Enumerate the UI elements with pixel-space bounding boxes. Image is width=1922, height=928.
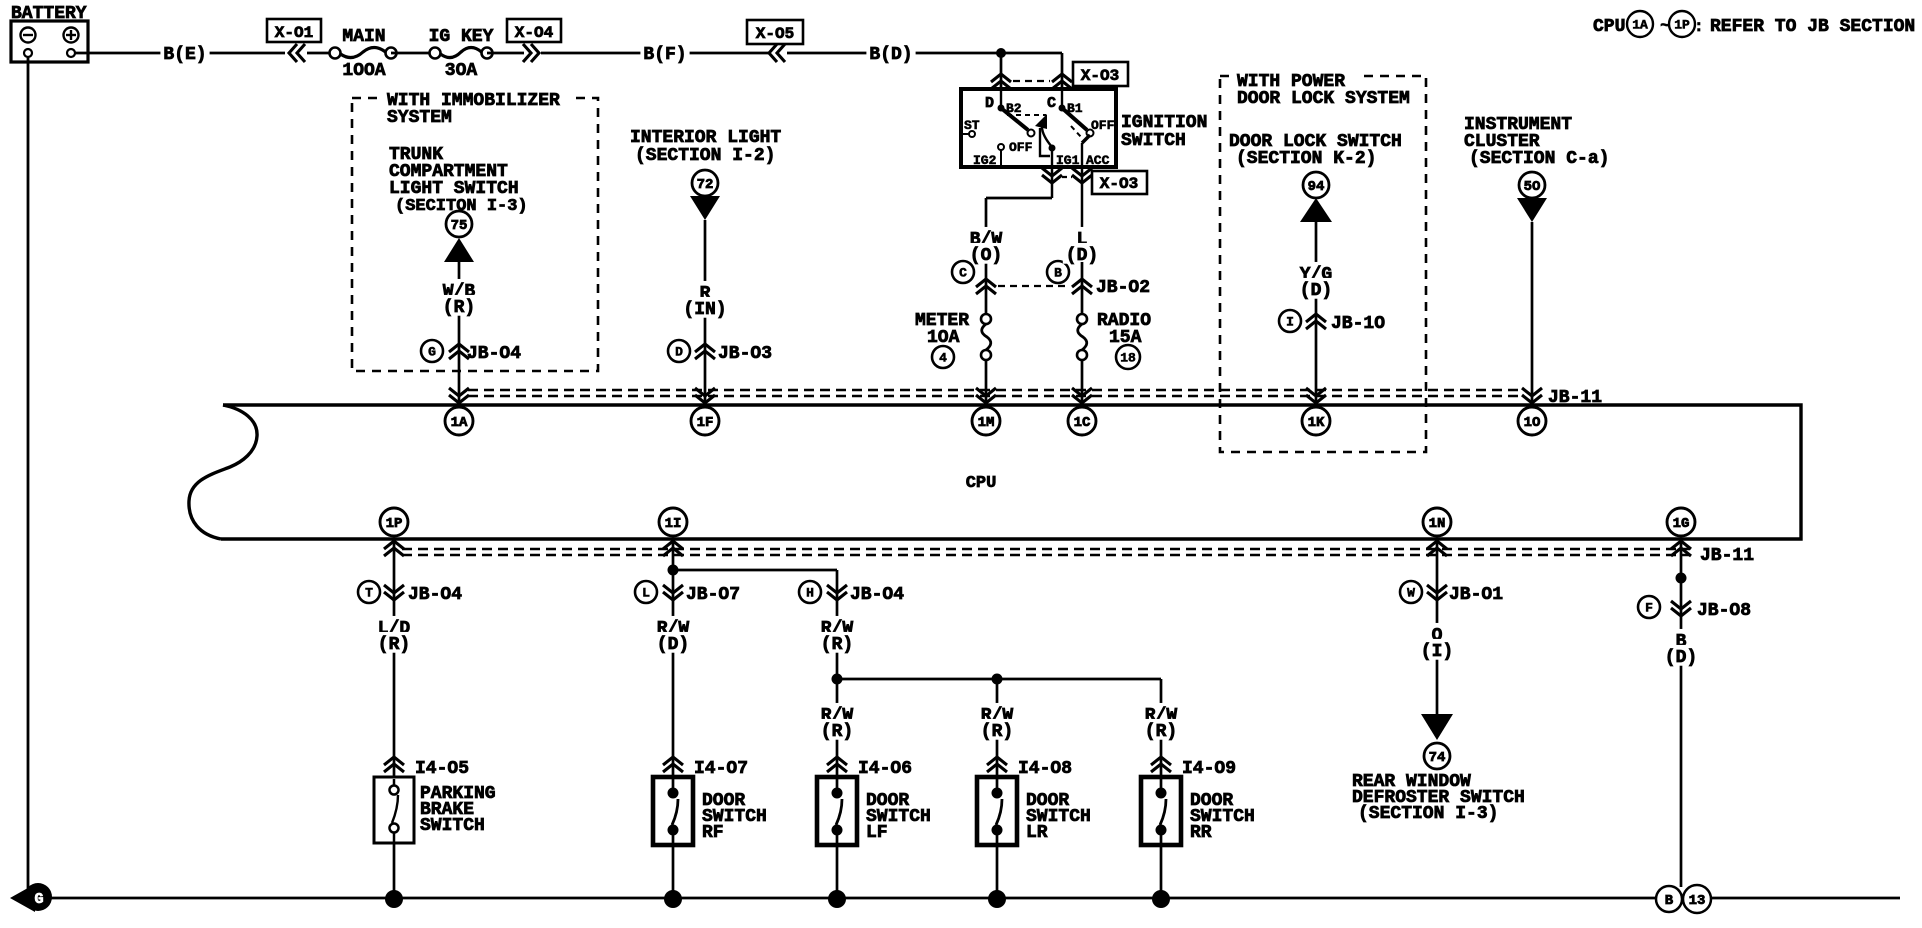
svg-text:CPU: CPU — [1593, 17, 1625, 37]
svg-text:B: B — [1665, 893, 1674, 909]
svg-text:OFF: OFF — [1009, 140, 1033, 155]
connector X-05 — [747, 20, 803, 44]
CPU pin 1M — [976, 388, 996, 396]
svg-text:JB-O4: JB-O4 — [408, 585, 462, 605]
svg-text:L: L — [642, 586, 650, 601]
svg-text:G: G — [34, 891, 43, 908]
svg-text:(R): (R) — [981, 722, 1013, 742]
wire W/B (R) — [458, 262, 461, 405]
svg-text:W: W — [1407, 586, 1415, 601]
svg-text:B(D): B(D) — [869, 45, 912, 65]
svg-text:1A: 1A — [1632, 18, 1648, 33]
svg-text:D: D — [985, 95, 994, 112]
ground junction — [828, 890, 846, 908]
ground bus wire — [50, 897, 1900, 900]
svg-text:(SECTION C-a): (SECTION C-a) — [1469, 149, 1609, 169]
node 75 trunk compartment light switch — [446, 211, 472, 237]
wire to H branch — [673, 569, 837, 572]
svg-text:I4-O9: I4-O9 — [1182, 759, 1236, 779]
svg-text:T: T — [365, 586, 373, 601]
svg-text:3OA: 3OA — [445, 61, 478, 81]
dashed box WITH IMMOBILIZER SYSTEM — [352, 98, 598, 371]
svg-text:B(E): B(E) — [163, 45, 206, 65]
svg-text:X-O3: X-O3 — [1081, 67, 1119, 85]
node W JB-01 — [1400, 581, 1422, 603]
connector I4-05 — [384, 757, 404, 765]
svg-text:1OOA: 1OOA — [342, 61, 385, 81]
node I JB-10 — [1279, 310, 1301, 332]
wire — [1081, 360, 1084, 405]
connector X-04 — [507, 19, 561, 42]
branch wire to LR and RR — [837, 678, 1161, 681]
node B JB-02 — [1047, 261, 1069, 283]
svg-text:I: I — [1286, 315, 1294, 330]
svg-text:LF: LF — [866, 823, 888, 843]
svg-text:1K: 1K — [1308, 415, 1325, 431]
svg-text:MAIN: MAIN — [342, 27, 385, 47]
svg-text:RR: RR — [1190, 823, 1212, 843]
svg-text:INTERIOR LIGHT: INTERIOR LIGHT — [630, 128, 781, 148]
svg-text:JB-O8: JB-O8 — [1697, 601, 1751, 621]
svg-text:18: 18 — [1120, 351, 1136, 366]
node G JB-04 — [421, 340, 443, 362]
dashed box WITH POWER DOOR LOCK SYSTEM — [1220, 76, 1426, 452]
connector I4-06 — [827, 757, 847, 765]
wire B(F) — [541, 52, 770, 55]
CPU unit outline — [221, 405, 1801, 539]
svg-text:(SECTION I-3): (SECTION I-3) — [1358, 804, 1498, 824]
door switch RR — [1141, 777, 1181, 845]
svg-text:(O): (O) — [970, 246, 1002, 266]
svg-text:JB-O7: JB-O7 — [686, 585, 740, 605]
wire — [391, 52, 435, 55]
svg-text:B: B — [1054, 266, 1062, 281]
wire B (D) — [1680, 539, 1683, 887]
contact B1 — [1061, 91, 1063, 107]
svg-text:72: 72 — [697, 177, 714, 193]
svg-text:F: F — [1645, 601, 1653, 616]
svg-text:(IN): (IN) — [683, 300, 726, 320]
wire — [1531, 222, 1534, 405]
svg-text:SWITCH: SWITCH — [420, 816, 485, 836]
node H JB-04 — [799, 581, 821, 603]
ground junction — [385, 890, 403, 908]
svg-text:(D): (D) — [1665, 648, 1697, 668]
wire — [985, 360, 988, 405]
ignition switch U1 — [961, 89, 1116, 167]
node F JB-08 — [1638, 596, 1660, 618]
svg-text:X-O3: X-O3 — [1100, 175, 1138, 193]
svg-text:SYSTEM: SYSTEM — [387, 108, 452, 128]
node 72 interior light — [692, 170, 718, 196]
CPU pin 1I — [659, 508, 687, 536]
wire B/W (O) — [986, 197, 1052, 200]
ground node B 13 — [1656, 886, 1682, 912]
svg-text:REFER TO JB SECTION: REFER TO JB SECTION — [1710, 17, 1915, 37]
node 94 door lock switch — [1303, 172, 1329, 198]
connector X-03 bottom — [1051, 167, 1054, 198]
CPU pin 1C — [1072, 388, 1092, 396]
svg-text:LR: LR — [1026, 823, 1048, 843]
svg-text:(SECTION I-2): (SECTION I-2) — [635, 146, 775, 166]
svg-text:(SECTION K-2): (SECTION K-2) — [1236, 149, 1376, 169]
door switch LF — [817, 777, 857, 845]
svg-text:1M: 1M — [978, 415, 995, 431]
svg-text:1I: 1I — [665, 516, 682, 532]
CPU break symbol — [189, 405, 257, 539]
svg-text::: : — [1694, 18, 1704, 36]
svg-text:I4-O7: I4-O7 — [694, 759, 748, 779]
svg-text:IGNITION: IGNITION — [1121, 113, 1207, 133]
svg-text:JB-O1: JB-O1 — [1449, 585, 1503, 605]
svg-text:(D): (D) — [657, 635, 689, 655]
svg-text:IG2: IG2 — [973, 153, 997, 168]
wire Y/G (D) — [1315, 222, 1318, 405]
wire B(D) — [787, 52, 1062, 55]
svg-text:D: D — [675, 345, 683, 360]
svg-text:C: C — [1047, 95, 1056, 112]
wire — [307, 52, 335, 55]
svg-text:ACC: ACC — [1086, 153, 1110, 168]
ground junction — [1152, 890, 1170, 908]
node C JB-02 — [952, 261, 974, 283]
CPU pin 1P — [380, 508, 408, 536]
junction — [1676, 573, 1687, 584]
svg-text:1P: 1P — [386, 516, 403, 532]
CPU pin 1N — [1423, 508, 1451, 536]
svg-text:X-O1: X-O1 — [275, 24, 313, 42]
svg-text:75: 75 — [451, 218, 468, 234]
svg-text:JB-O4: JB-O4 — [467, 344, 521, 364]
svg-text:(R): (R) — [821, 722, 853, 742]
svg-text:OFF: OFF — [1091, 118, 1115, 133]
CPU pin 1A — [449, 388, 469, 396]
node 50 instrument cluster — [1519, 172, 1545, 198]
svg-text:CPU: CPU — [966, 474, 997, 493]
wire O (I) — [1436, 539, 1439, 714]
wire R/W (R) to LF switch — [818, 703, 856, 724]
svg-text:1F: 1F — [697, 415, 714, 431]
ground G — [10, 884, 35, 912]
connector I4-08 — [987, 757, 1007, 765]
wire — [487, 52, 524, 55]
connector I4-09 — [1151, 757, 1171, 765]
svg-text:JB-O2: JB-O2 — [1096, 278, 1150, 298]
svg-text:I4-O5: I4-O5 — [415, 759, 469, 779]
junction — [996, 48, 1006, 58]
svg-text:JB-11: JB-11 — [1700, 546, 1754, 566]
svg-text:SWITCH: SWITCH — [1121, 131, 1186, 151]
svg-text:X-O4: X-O4 — [515, 24, 554, 42]
parking brake switch — [374, 777, 414, 843]
ground junction — [664, 890, 682, 908]
door switch RF — [653, 777, 693, 845]
node 74 rear window defroster switch — [1421, 714, 1453, 740]
svg-text:1P: 1P — [1674, 18, 1690, 33]
wire battery negative to ground — [27, 57, 30, 889]
wire R/W (D) — [672, 539, 675, 899]
node D JB-03 — [668, 340, 690, 362]
svg-text:(I): (I) — [1421, 642, 1453, 662]
svg-text:1O: 1O — [1524, 415, 1541, 431]
svg-text:X-O5: X-O5 — [756, 25, 794, 43]
wire L/D (R) — [393, 539, 396, 899]
CPU pin 1F — [695, 388, 715, 396]
wire R/W (R) to LR switch — [996, 679, 999, 899]
junction block JB-11 bottom dashed bus — [402, 548, 1690, 551]
svg-text:94: 94 — [1308, 179, 1325, 195]
CPU pin 1G — [1667, 508, 1695, 536]
svg-text:74: 74 — [1429, 750, 1446, 766]
node L JB-07 — [635, 581, 657, 603]
connector I4-07 — [663, 757, 683, 765]
svg-text:I4-O6: I4-O6 — [858, 759, 912, 779]
CPU pin 1K — [1306, 388, 1326, 396]
svg-text:5O: 5O — [1524, 179, 1541, 195]
junction — [668, 565, 679, 576]
svg-text:LIGHT SWITCH: LIGHT SWITCH — [389, 179, 519, 199]
wiper IG1 — [1042, 124, 1052, 147]
svg-text:4: 4 — [939, 351, 947, 366]
svg-text:B(F): B(F) — [643, 45, 686, 65]
svg-text:JB-1O: JB-1O — [1331, 314, 1385, 334]
svg-text:(D): (D) — [1300, 281, 1332, 301]
svg-text:(R): (R) — [443, 298, 475, 318]
svg-text:DOOR LOCK SYSTEM: DOOR LOCK SYSTEM — [1237, 89, 1410, 109]
junction — [832, 674, 843, 685]
svg-text:C: C — [959, 266, 967, 281]
svg-text:JB-O4: JB-O4 — [850, 585, 904, 605]
wire R/W (R) — [836, 570, 839, 899]
wire B(E) battery to X-01 — [75, 52, 285, 55]
svg-text:(R): (R) — [378, 635, 410, 655]
contact IG2 — [998, 144, 1004, 150]
svg-text:IG1: IG1 — [1056, 153, 1080, 168]
svg-text:(R): (R) — [821, 635, 853, 655]
node T JB-04 — [358, 581, 380, 603]
contact B2 — [1000, 91, 1002, 107]
svg-text:1C: 1C — [1074, 415, 1091, 431]
door switch LR — [977, 777, 1017, 845]
wire L (D) — [1074, 227, 1091, 248]
svg-text:H: H — [806, 586, 814, 601]
ground junction — [988, 890, 1006, 908]
svg-text:(R): (R) — [1145, 722, 1177, 742]
svg-text:IG KEY: IG KEY — [429, 27, 494, 47]
svg-text:1A: 1A — [451, 415, 468, 431]
svg-text:JB-O3: JB-O3 — [718, 344, 772, 364]
svg-text:I4-O8: I4-O8 — [1018, 759, 1072, 779]
CPU pin 10 — [1522, 388, 1542, 396]
wire R/W (R) to RR switch — [1160, 679, 1163, 899]
svg-text:13: 13 — [1689, 893, 1706, 909]
svg-text:1G: 1G — [1673, 516, 1690, 532]
connector X-03 top — [991, 74, 1011, 82]
svg-text:RF: RF — [702, 823, 724, 843]
junction block JB-11 top dashed bus — [468, 389, 1524, 392]
wire R (IN) — [704, 220, 707, 405]
svg-text:1N: 1N — [1429, 516, 1446, 532]
connector X-01 — [267, 19, 321, 42]
wire into ignition switch — [1000, 53, 1003, 91]
svg-text:G: G — [428, 345, 436, 360]
